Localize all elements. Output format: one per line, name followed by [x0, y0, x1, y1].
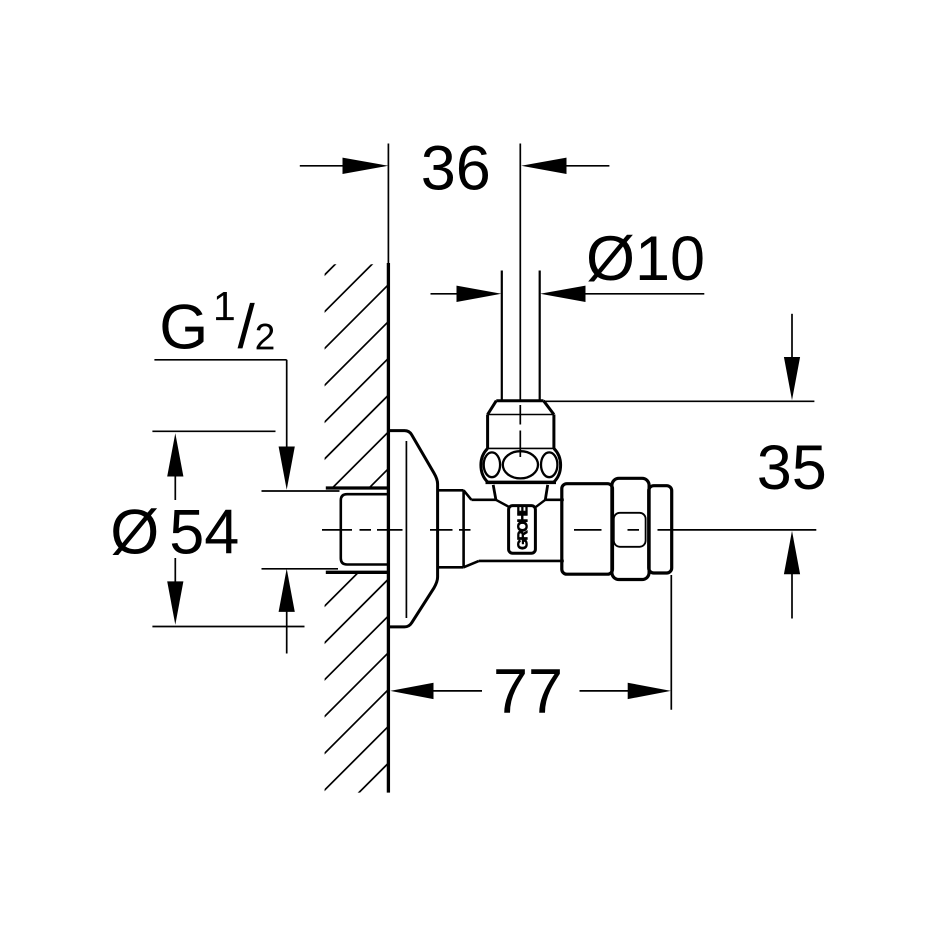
- valve body cylinder: [471, 500, 563, 561]
- wall hatching: [230, 125, 475, 938]
- nut facet lines: [614, 513, 646, 547]
- shoulders to label plate: [496, 500, 545, 508]
- wall extension line above: [387, 144, 389, 264]
- riser pipe: [502, 271, 540, 401]
- svg-text:Ø10: Ø10: [586, 224, 705, 294]
- knurl ellipse left: [484, 452, 500, 477]
- dim O54 up arrowhead: [167, 433, 183, 476]
- knurled band outline: [481, 448, 561, 482]
- dim 36 left arrowhead: [343, 158, 389, 174]
- dim 36: shafts: [300, 165, 610, 167]
- dim 77 line segments: [432, 690, 631, 692]
- dim O54 down arrowhead: [167, 581, 183, 624]
- wall thread OD lines: [326, 488, 389, 572]
- dim O10 right arrowhead: [540, 286, 585, 302]
- svg-text:54: 54: [169, 498, 239, 568]
- valve axis centerline horizontal: [322, 529, 816, 531]
- nut cylinder sides: [488, 415, 554, 449]
- dim 35 up arrowhead: [784, 531, 800, 574]
- dim 77 left arrowhead: [390, 683, 433, 699]
- dim 77 extension line right: [670, 575, 672, 710]
- right fitting nut (part B): [612, 478, 649, 579]
- G 1/2 leader line: [154, 360, 286, 448]
- dim 35 down arrowhead: [784, 357, 800, 400]
- neck between flange and body: [438, 490, 464, 567]
- dim 35 top extension line: [544, 400, 815, 402]
- dim O54 extension lines: [152, 431, 304, 626]
- knurl ellipse right: [541, 452, 557, 477]
- wall thread minor rectangle: [341, 494, 389, 564]
- G 1/2 up arrowhead: [279, 569, 295, 612]
- dim 36 right arrowhead: [521, 158, 566, 174]
- svg-text:36: 36: [421, 133, 491, 203]
- flange inner contour line: [405, 441, 407, 618]
- G 1/2 extension lines: [262, 491, 340, 569]
- riser centerline vertical + 36 extension: [519, 144, 521, 458]
- bonnet under nut: [493, 485, 548, 500]
- GROHE label plate: [509, 506, 536, 554]
- GROHE label text: [517, 505, 527, 549]
- dim O10 left arrowhead: [457, 286, 502, 302]
- dim O10: shafts: [431, 293, 705, 295]
- knurl ellipse center: [503, 451, 538, 478]
- svg-text:35: 35: [757, 433, 827, 503]
- svg-text:77: 77: [493, 657, 563, 727]
- right fitting sleeve (part A): [562, 484, 613, 575]
- wall line: [387, 263, 390, 793]
- neck chamfers: [464, 490, 479, 567]
- right fitting end cap (part C): [649, 486, 672, 573]
- flange (escutcheon) outline: [389, 431, 438, 627]
- G 1/2 down arrowhead: [279, 447, 295, 490]
- top compression nut cap: [488, 401, 554, 415]
- dim O54 line segments: [174, 475, 176, 584]
- svg-text:G: G: [159, 293, 208, 363]
- svg-text:Ø: Ø: [110, 498, 159, 568]
- dim 77 right arrowhead: [628, 683, 671, 699]
